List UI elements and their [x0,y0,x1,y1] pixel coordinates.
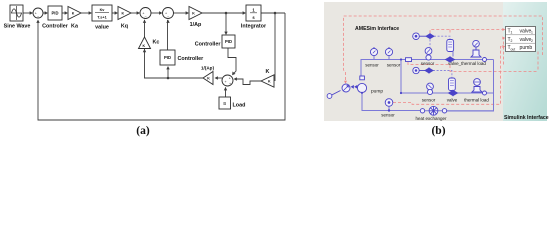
svg-text:AMESim Interface: AMESim Interface [355,26,399,32]
svg-text:K: K [192,12,195,16]
svg-text:out: out [511,47,516,51]
svg-text:Ka: Ka [71,24,79,30]
svg-text:T.s+1: T.s+1 [97,15,106,19]
svg-text:Controller: Controller [195,42,222,48]
svg-text:sensor: sensor [365,63,379,68]
svg-text:K: K [121,12,124,16]
svg-text:1/(Ap): 1/(Ap) [201,66,214,71]
svg-text:K: K [72,12,75,16]
svg-text:1/Ap: 1/Ap [190,22,202,28]
svg-text:K: K [268,80,271,84]
svg-text:(b): (b) [431,125,445,137]
svg-text:K: K [266,69,270,75]
svg-text:K: K [142,44,145,48]
svg-text:K: K [207,77,210,81]
svg-text:PID: PID [164,55,171,60]
svg-text:Simulink Interface: Simulink Interface [504,115,549,121]
svg-text:sensor: sensor [387,63,401,68]
svg-text:(a): (a) [136,125,150,137]
svg-text:Load: Load [233,103,246,109]
svg-text:Sine Wave: Sine Wave [4,24,31,30]
svg-text:valve: valve [520,28,532,34]
svg-text:value: value [95,25,109,31]
svg-text:2: 2 [511,39,513,43]
svg-text:Integrator: Integrator [241,24,267,30]
svg-text:PID: PID [225,39,232,44]
svg-text:+: + [229,82,231,86]
svg-text:pumb: pumb [520,45,533,51]
svg-text:Controller: Controller [178,56,205,62]
svg-text:sensor: sensor [381,113,395,118]
svg-text:PID: PID [52,11,59,16]
svg-text:heat exchanger: heat exchanger [415,116,447,121]
svg-text:valve_thermal load: valve_thermal load [448,61,486,66]
svg-text:1: 1 [531,31,533,35]
svg-text:valve: valve [447,98,458,103]
svg-text:−: − [167,15,169,19]
svg-text:sensor: sensor [421,61,435,66]
svg-text:2: 2 [531,39,533,43]
svg-text:sensor: sensor [422,98,436,103]
svg-text:Kq: Kq [121,24,128,30]
svg-text:Controller: Controller [42,24,69,30]
svg-text:thermal load: thermal load [464,98,489,103]
svg-text:valve: valve [520,37,532,43]
svg-text:B: B [223,101,226,106]
svg-text:1: 1 [511,31,513,35]
svg-text:+: + [224,80,226,84]
svg-text:pump: pump [371,90,383,95]
svg-text:Kc: Kc [153,40,160,46]
svg-text:+: + [229,76,231,80]
svg-text:−: − [144,15,146,19]
svg-text:−: − [37,15,39,19]
